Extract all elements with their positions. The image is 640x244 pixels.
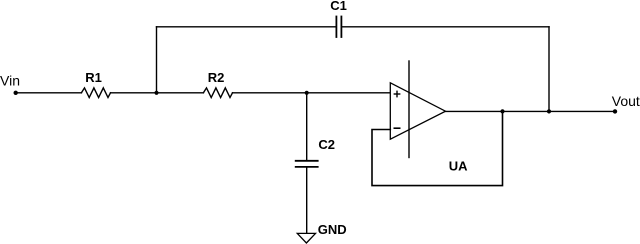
svg-text:C2: C2: [318, 137, 335, 152]
svg-text:R1: R1: [85, 70, 102, 85]
svg-text:GND: GND: [318, 222, 347, 237]
svg-text:UA: UA: [449, 158, 468, 173]
svg-text:Vout: Vout: [612, 93, 640, 109]
svg-text:C1: C1: [330, 0, 347, 13]
svg-text:Vin: Vin: [0, 72, 20, 88]
svg-text:R2: R2: [208, 70, 225, 85]
